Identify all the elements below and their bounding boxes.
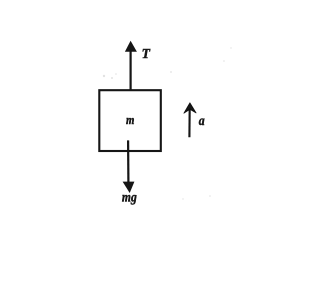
- faint scan speckles: [103, 47, 232, 199]
- svg-text:T: T: [142, 46, 151, 61]
- weight arrow mg shaft: [127, 140, 129, 183]
- acceleration arrow a shaft: [188, 107, 190, 138]
- mass box: [99, 90, 161, 151]
- weight arrowhead: [123, 182, 135, 193]
- tension arrowhead: [125, 41, 137, 52]
- svg-text:mg: mg: [122, 189, 137, 204]
- svg-text:m: m: [126, 113, 134, 127]
- tension arrow T shaft: [130, 50, 132, 90]
- svg-text:a: a: [199, 113, 205, 128]
- acceleration arrowhead: [184, 103, 196, 113]
